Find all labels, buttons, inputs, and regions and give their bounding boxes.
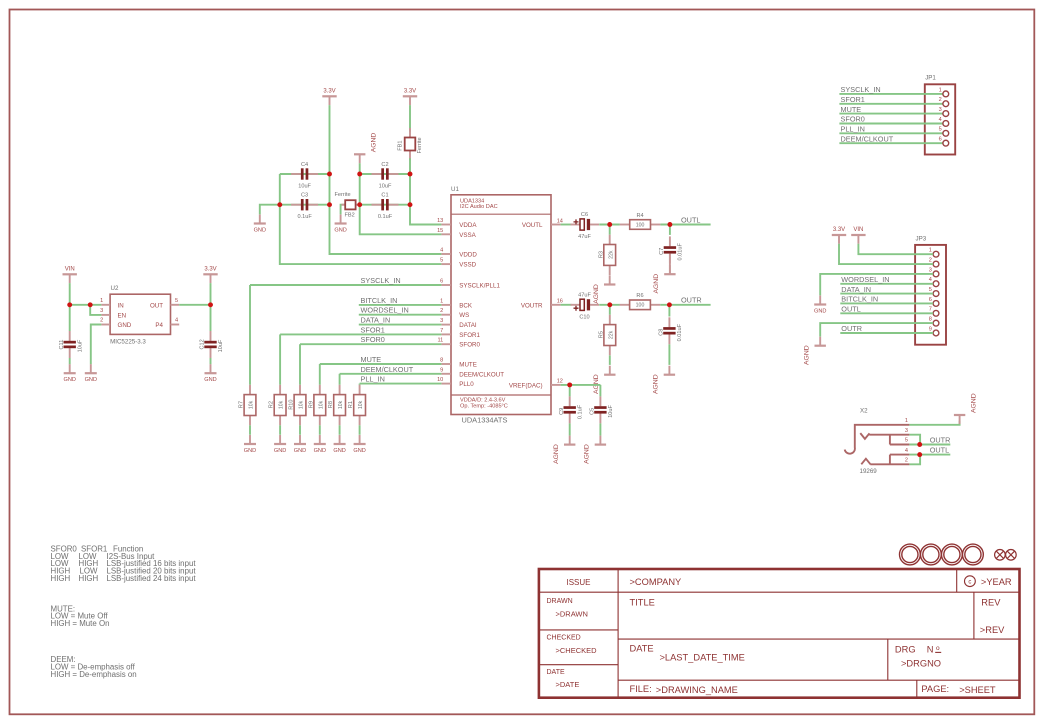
svg-text:2: 2 bbox=[440, 308, 443, 314]
svg-text:ISSUE: ISSUE bbox=[566, 578, 590, 587]
wire SFOR0 to JP1 pin 4 bbox=[839, 123, 943, 125]
svg-text:R3: R3 bbox=[598, 251, 604, 258]
wire tap down to R5 bbox=[609, 305, 611, 315]
svg-text:0.01uF: 0.01uF bbox=[678, 243, 684, 261]
svg-text:R10: R10 bbox=[289, 400, 295, 410]
wire MUTE to JP1 pin 3 bbox=[839, 113, 943, 115]
svg-text:VOUTL: VOUTL bbox=[522, 222, 543, 229]
wire PLL_IN to U1 pin 10 bbox=[360, 383, 442, 385]
ground AGND below C8 bbox=[653, 366, 675, 394]
capacitor C12 bbox=[200, 331, 225, 358]
ground GND R9 bbox=[314, 435, 326, 454]
notes: DEEM behaviour bbox=[51, 655, 137, 679]
svg-text:OUTL: OUTL bbox=[841, 305, 860, 314]
svg-text:22k: 22k bbox=[608, 330, 614, 339]
JP3 pin 1 bbox=[933, 251, 939, 257]
svg-text:DATE: DATE bbox=[630, 643, 654, 653]
junction X2 OUTL bbox=[917, 452, 922, 457]
svg-text:AGND: AGND bbox=[970, 393, 977, 413]
power flag 3.3V analog supply rail bbox=[403, 89, 417, 106]
svg-text:CHECKED: CHECKED bbox=[547, 635, 581, 642]
svg-text:100: 100 bbox=[636, 222, 645, 228]
svg-text:C3: C3 bbox=[301, 193, 308, 199]
svg-text:OUTL: OUTL bbox=[681, 215, 700, 224]
svg-text:SYSCLK_IN: SYSCLK_IN bbox=[361, 276, 401, 285]
svg-text:C12: C12 bbox=[200, 339, 206, 349]
svg-text:>CHECKED: >CHECKED bbox=[556, 646, 598, 655]
svg-text:3: 3 bbox=[905, 428, 908, 434]
power flag 3.3V at C12 bbox=[203, 267, 217, 284]
capacitor C11 bbox=[59, 331, 84, 358]
svg-text:>DRAWING_NAME: >DRAWING_NAME bbox=[656, 685, 738, 695]
svg-text:DATA_IN: DATA_IN bbox=[841, 285, 871, 294]
svg-text:C2: C2 bbox=[381, 162, 388, 168]
wire R9 to ground bbox=[319, 425, 321, 435]
ground AGND below R3 bbox=[593, 276, 615, 304]
wire R1 to ground bbox=[359, 425, 361, 435]
ground GND C12 bbox=[204, 364, 216, 383]
wire SYSCLK_IN down to R7 bbox=[249, 285, 251, 385]
wire SYSCLK_IN to JP1 pin 1 bbox=[839, 93, 943, 95]
svg-text:12: 12 bbox=[557, 379, 563, 385]
U1 pin 2 WS bbox=[440, 308, 469, 319]
svg-text:DEEM/CLKOUT: DEEM/CLKOUT bbox=[361, 365, 414, 374]
wire ground to FB2 bbox=[341, 205, 346, 215]
wire VIN flag down to junction bbox=[69, 283, 71, 305]
wire X2 sleeve to AGND bbox=[909, 421, 959, 425]
svg-text:2: 2 bbox=[939, 97, 942, 103]
svg-text:0.1uF: 0.1uF bbox=[297, 214, 312, 220]
junction VDDA rail / C2 bbox=[408, 172, 413, 177]
JP1 pin 4 bbox=[943, 121, 949, 127]
svg-text:>YEAR: >YEAR bbox=[981, 577, 1012, 587]
svg-text:MUTE: MUTE bbox=[459, 362, 477, 369]
svg-text:VOUTR: VOUTR bbox=[521, 302, 543, 309]
svg-text:AGND: AGND bbox=[804, 345, 811, 365]
svg-text:U2: U2 bbox=[111, 285, 119, 292]
svg-text:DATE: DATE bbox=[547, 669, 565, 676]
junction VIN / C11 bbox=[67, 302, 72, 307]
JP3 pin 9 bbox=[933, 330, 939, 336]
svg-text:10uF: 10uF bbox=[218, 339, 224, 352]
svg-text:U1: U1 bbox=[451, 186, 459, 193]
wire SFOR0 to U1 pin 11 bbox=[300, 343, 441, 345]
resistor R8 pulldown 10k bbox=[328, 385, 345, 426]
svg-text:R7: R7 bbox=[239, 401, 245, 408]
wire tap down to R3 bbox=[609, 225, 611, 235]
svg-text:GND: GND bbox=[85, 377, 97, 383]
svg-text:MUTE: MUTE bbox=[361, 355, 382, 364]
wire EN tie to input bbox=[90, 305, 101, 315]
svg-text:Ferrite: Ferrite bbox=[335, 192, 351, 198]
connector JP1 bbox=[925, 75, 955, 155]
X2 ring contact (pin 2) bbox=[861, 459, 909, 465]
capacitor C3 bbox=[291, 193, 318, 221]
svg-text:0.1uF: 0.1uF bbox=[577, 404, 583, 419]
svg-text:8: 8 bbox=[440, 358, 443, 364]
wire DEEM/CLKOUT down to R8 bbox=[339, 374, 341, 385]
junction 3.3V / C3 bbox=[327, 202, 332, 207]
svg-text:VIN: VIN bbox=[65, 267, 75, 273]
wire OUTL to JP3 bbox=[840, 312, 933, 314]
svg-text:>DRAWN: >DRAWN bbox=[556, 610, 588, 619]
svg-text:DEEM/CLKOUT: DEEM/CLKOUT bbox=[841, 134, 894, 143]
ground AGND below C5 bbox=[584, 436, 606, 464]
wire JP3 pin 3 to ground bbox=[820, 274, 933, 296]
wire U1 VREF to caps bbox=[561, 384, 601, 386]
svg-text:11: 11 bbox=[437, 338, 443, 344]
IC U1 UDA1334ATS bbox=[451, 186, 551, 424]
svg-text:16: 16 bbox=[557, 299, 563, 305]
svg-text:9: 9 bbox=[440, 367, 443, 373]
JP1 pin 3 bbox=[943, 111, 949, 117]
svg-text:3.3V: 3.3V bbox=[204, 267, 216, 273]
svg-text:GND: GND bbox=[334, 227, 346, 233]
ground AGND below C9 bbox=[553, 436, 575, 464]
audio jack X2 bbox=[845, 408, 910, 476]
wire DEEM/CLKOUT to U1 pin 9 bbox=[340, 373, 442, 375]
wire C1 row bbox=[360, 204, 410, 206]
wire R6 to OUTR label bbox=[660, 304, 710, 306]
resistor R9 pulldown 10k bbox=[308, 385, 325, 426]
svg-text:5: 5 bbox=[939, 127, 942, 133]
svg-text:Ferrite: Ferrite bbox=[417, 137, 423, 153]
svg-text:HIGH: HIGH bbox=[51, 574, 71, 583]
wire C4 row bbox=[280, 173, 330, 175]
svg-text:10uF: 10uF bbox=[608, 404, 614, 417]
svg-text:10k: 10k bbox=[249, 400, 255, 409]
svg-text:PAGE:: PAGE: bbox=[921, 684, 949, 694]
wire junction down to C12 bbox=[210, 305, 212, 331]
U1 pin 3 DATAI bbox=[440, 318, 477, 329]
svg-text:5: 5 bbox=[440, 258, 443, 264]
svg-text:GND: GND bbox=[333, 448, 345, 454]
svg-text:>REV: >REV bbox=[980, 625, 1005, 635]
ground GND R1 bbox=[353, 435, 365, 454]
ground AGND JP3 pin 8 bbox=[804, 337, 826, 365]
svg-text:C1: C1 bbox=[381, 193, 388, 199]
svg-text:GND: GND bbox=[63, 377, 75, 383]
JP1 pin 6 bbox=[943, 140, 949, 146]
svg-text:10k: 10k bbox=[358, 400, 364, 409]
wire WORDSEL_IN to U1 pin 2 bbox=[359, 314, 442, 316]
svg-text:BCK: BCK bbox=[459, 302, 473, 309]
U1 pin 16 VOUTR bbox=[521, 299, 563, 310]
svg-text:VREF(DAC): VREF(DAC) bbox=[509, 382, 543, 389]
wire SYSCLK_IN to U1 pin 6 bbox=[250, 284, 441, 286]
svg-text:MIC5225-3.3: MIC5225-3.3 bbox=[110, 338, 146, 345]
wire C3 row bbox=[280, 204, 330, 206]
capacitor C6 (polarized) bbox=[571, 212, 600, 240]
ground AGND below R5 bbox=[593, 366, 615, 394]
wire U2 GND pin to ground bbox=[91, 325, 102, 365]
svg-text:>COMPANY: >COMPANY bbox=[630, 577, 682, 587]
wire 3.3V flag down to junction bbox=[210, 283, 212, 305]
U1 pin 8 MUTE bbox=[440, 358, 477, 369]
U1 pin 14 VOUTL bbox=[522, 218, 563, 229]
notes: SFOR mode table bbox=[51, 545, 197, 583]
wire WORDSEL_IN to JP3 bbox=[840, 283, 933, 285]
title block copyright + year bbox=[965, 576, 976, 587]
svg-text:R9: R9 bbox=[308, 401, 314, 408]
wire R8 to ground bbox=[339, 425, 341, 435]
svg-text:VDDD: VDDD bbox=[459, 252, 477, 259]
svg-text:AGND: AGND bbox=[371, 133, 378, 153]
svg-text:HIGH: HIGH bbox=[79, 574, 99, 583]
JP3 pin 6 bbox=[933, 301, 939, 307]
svg-text:C4: C4 bbox=[301, 162, 308, 168]
svg-text:VSSD: VSSD bbox=[459, 262, 476, 269]
junction X2 OUTR bbox=[917, 442, 922, 447]
svg-text:MUTE: MUTE bbox=[841, 105, 862, 114]
svg-text:SYSCLK_IN: SYSCLK_IN bbox=[841, 85, 881, 94]
wire R7 to ground bbox=[249, 425, 251, 435]
capacitor C7 bbox=[659, 236, 684, 263]
capacitor C5 bbox=[590, 396, 615, 423]
svg-text:FB1: FB1 bbox=[397, 141, 403, 151]
svg-text:1: 1 bbox=[440, 298, 443, 304]
wire BITCLK_IN to U1 pin 1 bbox=[359, 304, 442, 306]
wire R2 to ground bbox=[279, 425, 281, 435]
svg-text:14: 14 bbox=[557, 218, 563, 224]
wire U2 OUT to 3.3V node bbox=[179, 304, 210, 306]
wire MUTE to U1 pin 8 bbox=[320, 363, 442, 365]
wire C12 to ground bbox=[210, 358, 212, 364]
X2 switch tie pins 4-2 bbox=[890, 455, 910, 465]
wire OUTR tap down to C8 bbox=[668, 305, 670, 317]
wire 3.3V flag to FB1 bbox=[409, 105, 411, 132]
svg-text:>LAST_DATE_TIME: >LAST_DATE_TIME bbox=[660, 653, 745, 663]
junction VREF / C9 bbox=[567, 382, 572, 387]
wire SFOR1 to U1 pin 7 bbox=[280, 333, 441, 335]
svg-text:VDDA: VDDA bbox=[459, 222, 477, 229]
svg-text:5: 5 bbox=[929, 287, 932, 293]
svg-text:4: 4 bbox=[905, 448, 908, 454]
wire C11 to ground bbox=[69, 358, 71, 364]
svg-text:OUTR: OUTR bbox=[930, 435, 951, 444]
svg-text:WORDSEL_IN: WORDSEL_IN bbox=[841, 275, 889, 284]
svg-text:100: 100 bbox=[636, 303, 645, 309]
svg-text:2: 2 bbox=[100, 318, 103, 324]
svg-text:GND: GND bbox=[353, 448, 365, 454]
svg-text:>DRGNO: >DRGNO bbox=[901, 658, 941, 668]
svg-text:FILE:: FILE: bbox=[630, 684, 652, 694]
wire SFOR1 down to R2 bbox=[279, 334, 281, 384]
svg-text:1: 1 bbox=[905, 418, 908, 424]
svg-text:GND: GND bbox=[274, 448, 286, 454]
ground GND R2 bbox=[274, 435, 286, 454]
svg-text:TITLE: TITLE bbox=[630, 597, 655, 607]
JP3 pin 5 bbox=[933, 291, 939, 297]
svg-text:R6: R6 bbox=[636, 293, 643, 299]
svg-text:DATAI: DATAI bbox=[459, 322, 477, 329]
wire OUTL into X2 bbox=[909, 454, 950, 456]
svg-text:8: 8 bbox=[929, 317, 932, 323]
svg-text:6: 6 bbox=[929, 297, 932, 303]
svg-text:1: 1 bbox=[100, 298, 103, 304]
svg-text:3: 3 bbox=[100, 308, 103, 314]
svg-text:4: 4 bbox=[929, 277, 932, 283]
wire SFOR1 to JP1 pin 2 bbox=[839, 103, 943, 105]
wire C9 to AGND bbox=[569, 423, 571, 435]
svg-text:0.1uF: 0.1uF bbox=[378, 214, 393, 220]
JP3 pin 3 bbox=[933, 271, 939, 277]
junction AGND / C1 / FB2 bbox=[357, 202, 362, 207]
svg-text:5: 5 bbox=[905, 438, 908, 444]
U1 pin 15 VSSA bbox=[437, 228, 477, 239]
svg-text:15: 15 bbox=[437, 228, 443, 234]
wire C8 to AGND bbox=[668, 344, 670, 365]
svg-text:10k: 10k bbox=[338, 400, 344, 409]
svg-text:JP3: JP3 bbox=[916, 235, 927, 242]
voltage regulator U2 bbox=[100, 285, 179, 346]
svg-text:3: 3 bbox=[440, 318, 443, 324]
svg-text:C6: C6 bbox=[581, 212, 588, 218]
U1 pin 10 PLL0 bbox=[437, 377, 474, 388]
svg-text:3: 3 bbox=[929, 267, 932, 273]
wire DEEM/CLKOUT to JP1 pin 6 bbox=[839, 142, 943, 144]
svg-text:IN: IN bbox=[118, 302, 124, 309]
U1 pin 1 BCK bbox=[440, 298, 473, 309]
svg-text:R4: R4 bbox=[637, 213, 644, 219]
wire R4 to OUTL label bbox=[660, 224, 710, 226]
wire VREF down to C5 bbox=[599, 385, 601, 397]
wire GND rail down to U1 VSSD pin 5 bbox=[280, 174, 442, 264]
U1 pin 12 VREF(DAC) bbox=[509, 379, 563, 390]
svg-text:GND: GND bbox=[254, 227, 266, 233]
resistor R1 pulldown 10k bbox=[348, 385, 365, 426]
wire SFOR0 down to R10 bbox=[299, 344, 301, 385]
svg-text:VIN: VIN bbox=[853, 227, 863, 233]
svg-text:SFOR1: SFOR1 bbox=[361, 325, 385, 334]
junction OUTR net bbox=[667, 302, 672, 307]
svg-text:SFOR0: SFOR0 bbox=[841, 115, 865, 124]
wire DATA_IN to U1 pin 3 bbox=[359, 324, 442, 326]
svg-text:R5: R5 bbox=[598, 331, 604, 338]
svg-text:10: 10 bbox=[437, 377, 443, 383]
svg-text:>SHEET: >SHEET bbox=[959, 685, 996, 695]
resistor R10 pulldown 10k bbox=[289, 385, 306, 426]
svg-text:3.3V: 3.3V bbox=[404, 89, 416, 95]
U1 pin 5 VSSD bbox=[440, 258, 477, 269]
svg-text:19269: 19269 bbox=[860, 468, 878, 475]
ground GND R10 bbox=[294, 435, 306, 454]
svg-text:OUTL: OUTL bbox=[930, 445, 949, 454]
junction AGND / C2 bbox=[357, 172, 362, 177]
ground GND R7 bbox=[244, 435, 256, 454]
svg-text:R1: R1 bbox=[348, 401, 354, 408]
ground AGND below C7 bbox=[653, 265, 675, 293]
svg-text:10k: 10k bbox=[299, 400, 305, 409]
junction 3.3V / C12 bbox=[208, 302, 213, 307]
svg-text:GND: GND bbox=[294, 448, 306, 454]
svg-text:22k: 22k bbox=[608, 250, 614, 259]
notes: MUTE behaviour bbox=[51, 604, 110, 628]
U1 pin 7 SFOR1 bbox=[440, 328, 480, 339]
wire X2 pin 3 to pin 5 net bbox=[909, 435, 920, 445]
svg-text:DATA_IN: DATA_IN bbox=[361, 316, 391, 325]
wire OUTL tap down to C7 bbox=[669, 225, 671, 235]
svg-text:1: 1 bbox=[939, 87, 942, 93]
svg-text:3: 3 bbox=[939, 107, 942, 113]
wire R5 to AGND bbox=[609, 355, 611, 365]
svg-text:6: 6 bbox=[440, 279, 443, 285]
wire C5 to AGND bbox=[599, 423, 601, 435]
svg-text:UDA1334ATS: UDA1334ATS bbox=[462, 416, 508, 425]
svg-text:5: 5 bbox=[175, 298, 178, 304]
U2 pin 2 GND bbox=[101, 324, 110, 326]
ground GND R8 bbox=[333, 435, 345, 454]
junction VIN / EN tap bbox=[88, 302, 93, 307]
svg-text:SFOR1: SFOR1 bbox=[841, 95, 865, 104]
wire OUTR into X2 bbox=[909, 444, 950, 446]
svg-text:C7: C7 bbox=[659, 248, 665, 255]
svg-text:C9: C9 bbox=[559, 408, 565, 415]
svg-text:C10: C10 bbox=[579, 314, 589, 320]
svg-text:GND: GND bbox=[204, 377, 216, 383]
svg-text:R2: R2 bbox=[269, 401, 275, 408]
power flag VIN at C11/U2 input bbox=[63, 267, 77, 284]
capacitor C2 bbox=[372, 162, 399, 190]
junction OUTR filter tap R bbox=[607, 302, 612, 307]
connector JP3 bbox=[915, 235, 946, 344]
wire R10 to ground bbox=[299, 425, 301, 435]
U1 pin 9 DEEM/CLKOUT bbox=[440, 367, 504, 378]
svg-text:X2: X2 bbox=[860, 408, 868, 415]
svg-text:10k: 10k bbox=[279, 400, 285, 409]
svg-text:PLL_IN: PLL_IN bbox=[841, 125, 865, 134]
wire U1 VOUTR to C10 bbox=[561, 304, 572, 306]
svg-text:OUTR: OUTR bbox=[841, 324, 862, 333]
svg-text:HIGH = De-emphasis on: HIGH = De-emphasis on bbox=[51, 670, 137, 679]
wire 3.3V rail down to U1 VDDD pin 4 bbox=[330, 105, 442, 254]
resistor R4 series 100 bbox=[620, 213, 661, 229]
resistor R6 series 100 bbox=[620, 293, 661, 309]
wire JP3 pin 8 to AGND bbox=[820, 323, 933, 337]
wire VIN row to U2 pin 1 bbox=[70, 304, 102, 306]
power flag 3.3V at JP3 pin 2 bbox=[832, 227, 846, 244]
svg-text:I2C Audio DAC: I2C Audio DAC bbox=[460, 204, 498, 210]
svg-text:C8: C8 bbox=[659, 329, 665, 336]
resistor R2 pulldown 10k bbox=[269, 385, 286, 426]
svg-text:4: 4 bbox=[175, 318, 178, 324]
wire OUTR to JP3 pin 9 bbox=[840, 332, 933, 334]
wire ground to C3 row bbox=[260, 205, 280, 215]
svg-text:AGND: AGND bbox=[653, 274, 660, 294]
title block frame bbox=[539, 569, 1020, 698]
svg-text:7: 7 bbox=[440, 328, 443, 334]
wire C10 to R6 bbox=[599, 304, 620, 306]
svg-text:1: 1 bbox=[929, 248, 932, 254]
capacitor C10 (polarized) bbox=[571, 293, 600, 321]
svg-text:9: 9 bbox=[929, 326, 932, 332]
junction VDDA rail / C1 bbox=[408, 202, 413, 207]
wire 3.3V to JP3 pin 2 bbox=[839, 244, 933, 264]
svg-text:47uF: 47uF bbox=[578, 293, 591, 299]
svg-text:N: N bbox=[927, 645, 934, 655]
svg-text:GND: GND bbox=[118, 322, 132, 329]
ferrite bead FB1 bbox=[397, 128, 422, 160]
svg-text:10uF: 10uF bbox=[77, 339, 83, 352]
JP3 pin 4 bbox=[933, 281, 939, 287]
U2 pin 4 P4 bbox=[171, 324, 180, 326]
svg-text:o: o bbox=[936, 645, 940, 652]
resistor R7 pulldown 10k bbox=[239, 385, 256, 426]
ground GND U2 pin2 bbox=[85, 364, 97, 383]
svg-text:AGND: AGND bbox=[553, 444, 560, 464]
svg-text:AGND: AGND bbox=[584, 444, 591, 464]
resistor R5 load 22k bbox=[598, 315, 615, 356]
